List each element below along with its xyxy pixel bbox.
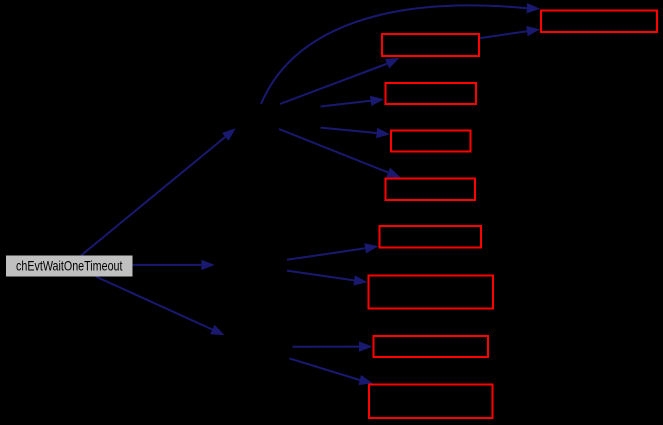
node box H (369, 385, 493, 419)
node box G (374, 336, 489, 357)
wire edge box A to box T (480, 26, 540, 38)
wire edge hub1 to box D (279, 129, 401, 178)
wire edge hub3 to box G (293, 341, 373, 351)
wire edge root to hub1 (81, 128, 236, 255)
wire edge hub2 to box F (287, 271, 368, 286)
node box D (386, 179, 476, 201)
wire edge hub1 to box C (321, 128, 390, 139)
wire edge hub2 to box E (287, 243, 379, 260)
wire edge root to hub3 (96, 277, 225, 336)
node chEvtWaitOneTimeout (root) (6, 256, 133, 277)
wire edge hub1 to box A (280, 58, 399, 104)
wire edge root to hub2 (133, 260, 215, 270)
wire edge hub1 to box B (321, 96, 385, 107)
node box T (541, 11, 657, 33)
node box C (391, 131, 471, 152)
wire edge hub3 to box H (290, 358, 373, 385)
node box F (369, 276, 494, 309)
node box B (386, 83, 477, 104)
node box A (382, 34, 479, 56)
node box E (380, 226, 482, 248)
svg-text:chEvtWaitOneTimeout: chEvtWaitOneTimeout (16, 258, 123, 274)
wire curved edge hub1 to box T (261, 3, 540, 104)
